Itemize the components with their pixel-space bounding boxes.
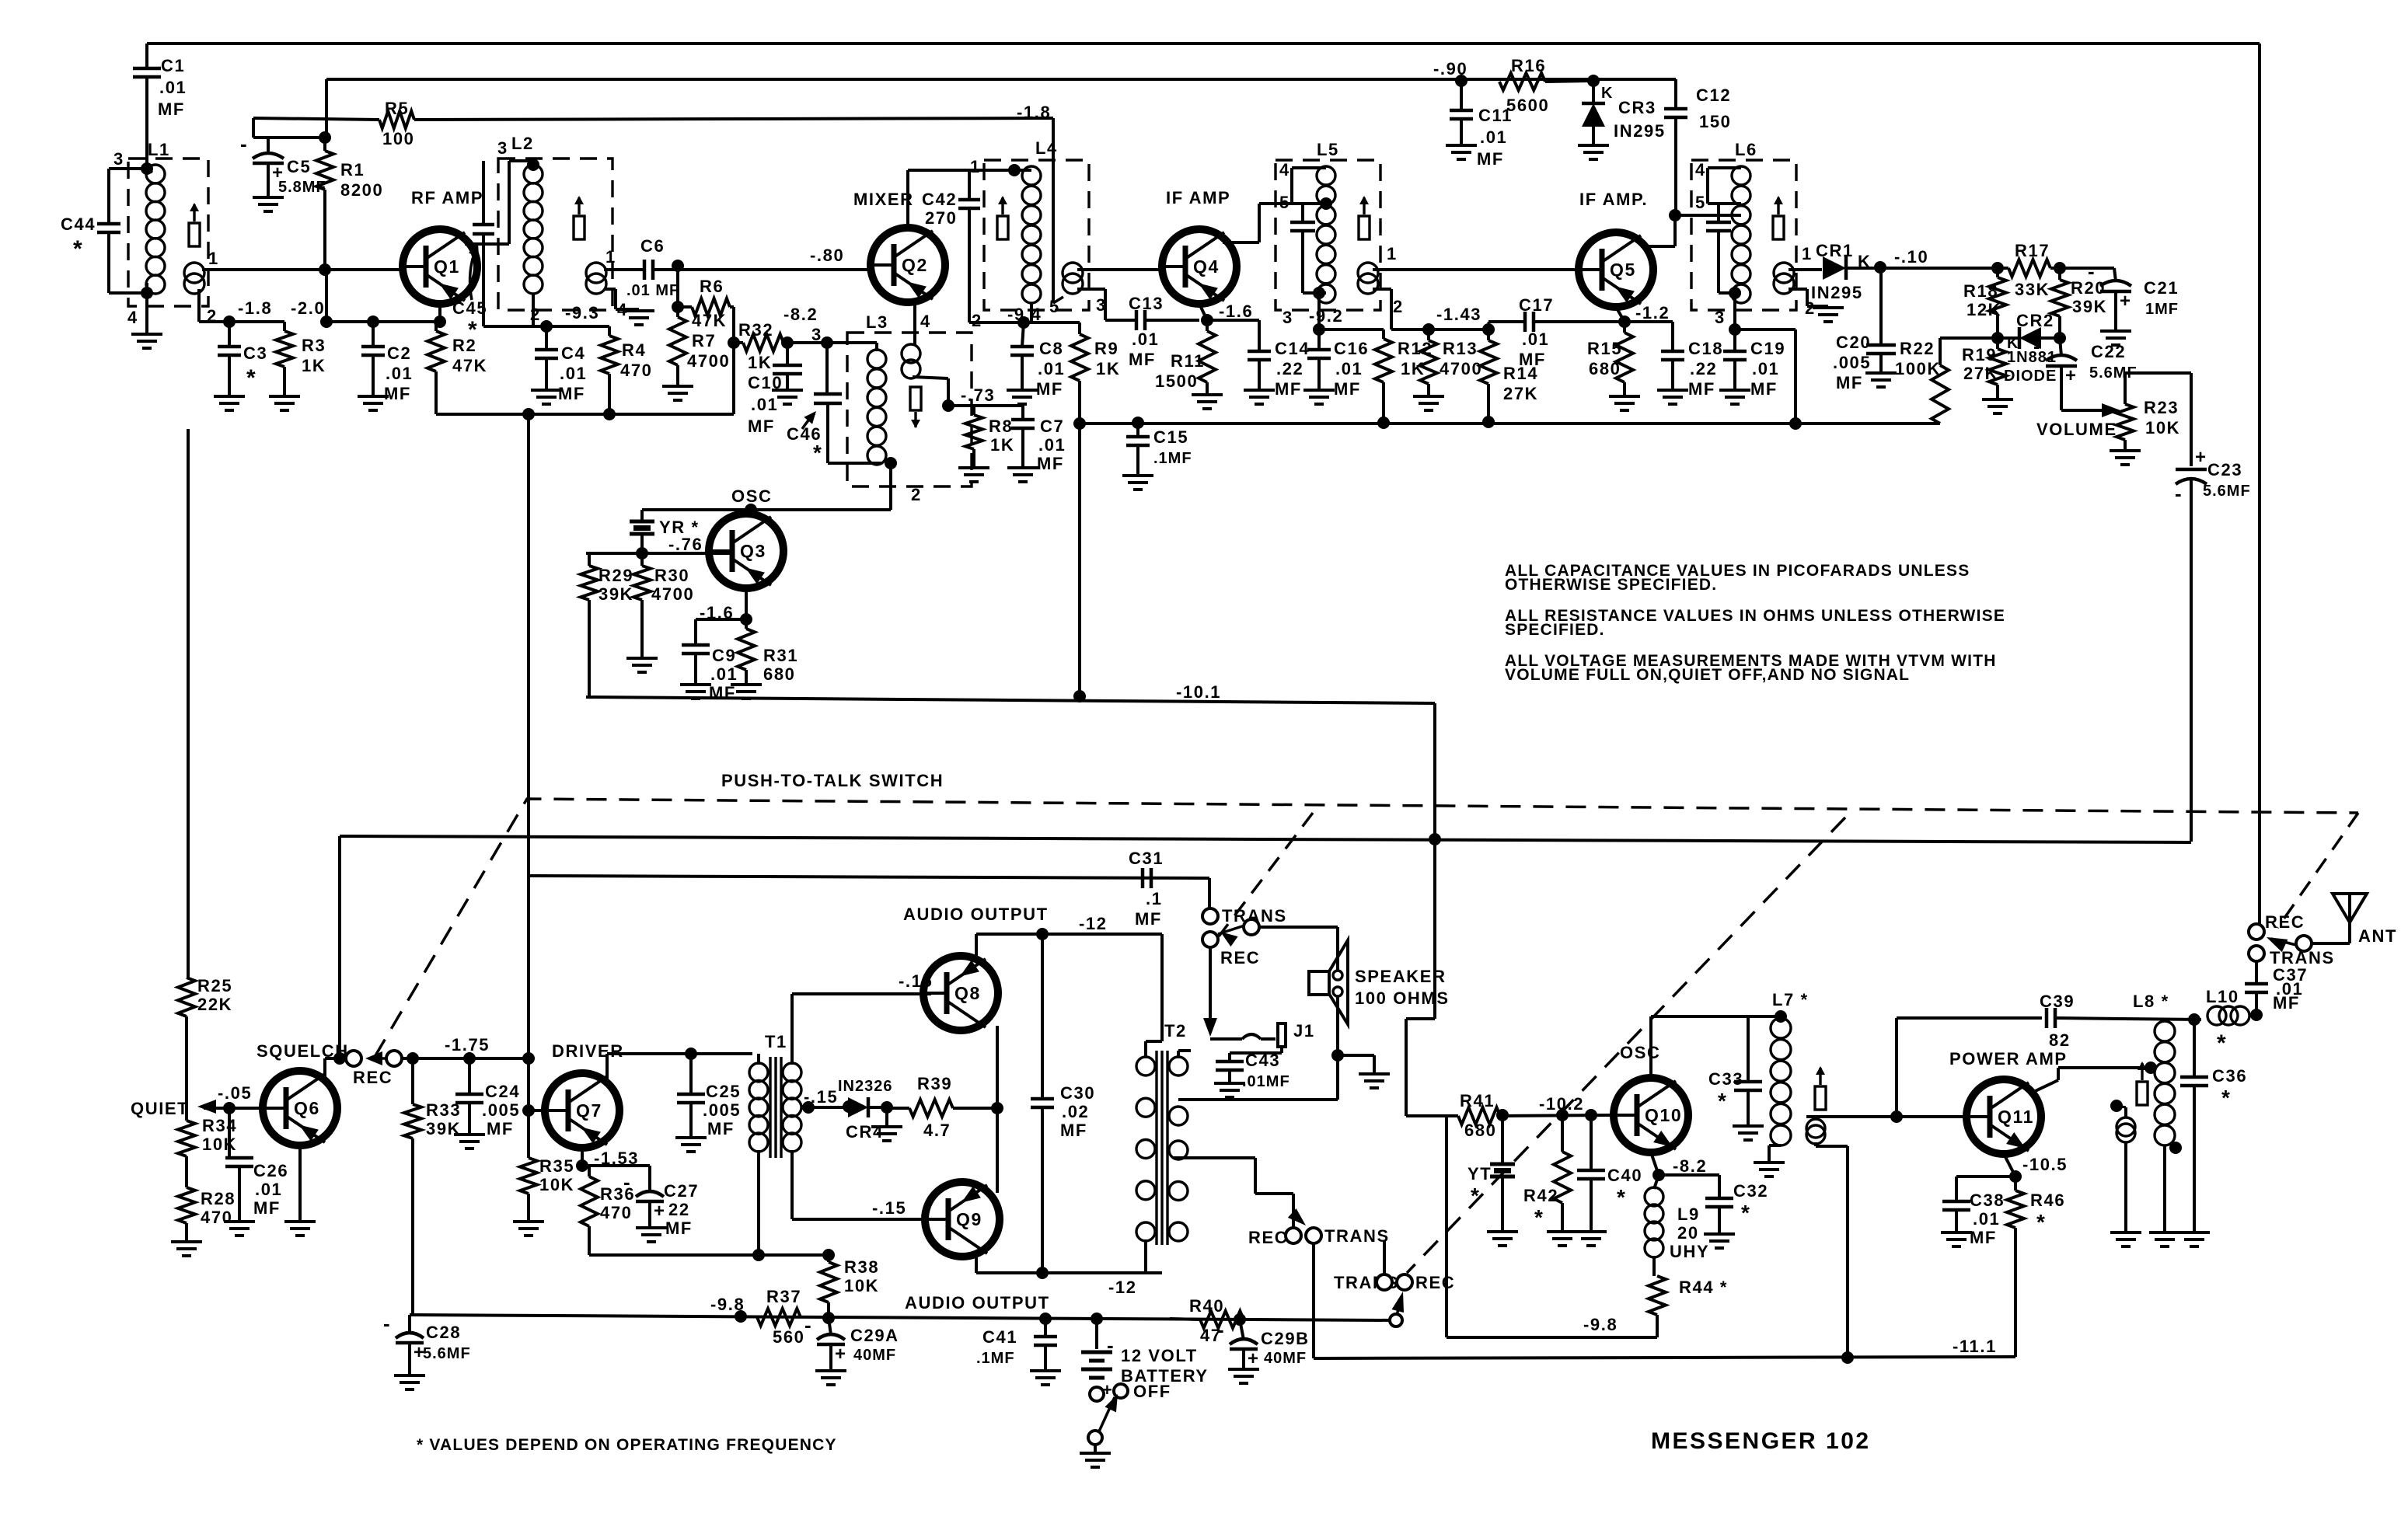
svg-text:-.10: -.10	[1894, 247, 1928, 267]
svg-text:MF: MF	[1129, 350, 1156, 369]
svg-text:Q4: Q4	[1193, 256, 1220, 277]
svg-text:C28: C28	[426, 1323, 461, 1342]
svg-text:-1.43: -1.43	[1436, 305, 1481, 324]
svg-text:YT: YT	[1467, 1164, 1492, 1184]
svg-text:4: 4	[920, 312, 931, 331]
svg-text:REC: REC	[353, 1068, 393, 1087]
svg-text:* VALUES DEPEND ON OPERATIN: * VALUES DEPEND ON OPERATING FREQUENCY	[417, 1436, 837, 1454]
svg-text:-9.2: -9.2	[1309, 306, 1343, 326]
svg-text:.01: .01	[1038, 435, 1066, 455]
svg-text:MF: MF	[158, 99, 185, 119]
svg-text:R6: R6	[700, 277, 724, 296]
svg-text:.22: .22	[1690, 359, 1717, 378]
svg-text:-: -	[804, 1313, 811, 1337]
svg-text:MF: MF	[253, 1198, 281, 1218]
svg-text:2: 2	[972, 311, 982, 330]
svg-text:.005: .005	[1833, 353, 1871, 372]
svg-text:-9.8: -9.8	[710, 1295, 745, 1314]
svg-text:R31: R31	[763, 646, 798, 665]
svg-text:C12: C12	[1696, 85, 1731, 105]
svg-text:REC: REC	[1415, 1273, 1455, 1292]
svg-text:DIODE: DIODE	[2004, 368, 2057, 385]
svg-text:150: 150	[1699, 112, 1732, 131]
svg-text:C38: C38	[1970, 1191, 2005, 1210]
svg-text:T1: T1	[765, 1032, 787, 1051]
svg-text:C11: C11	[1478, 106, 1513, 125]
svg-text:27K: 27K	[1963, 364, 1998, 383]
svg-text:R25: R25	[197, 976, 232, 995]
svg-text:C23: C23	[2207, 460, 2242, 479]
svg-text:1: 1	[1802, 244, 1813, 263]
svg-text:22K: 22K	[197, 995, 232, 1014]
svg-text:33K: 33K	[2015, 280, 2050, 299]
svg-text:*: *	[1617, 1185, 1627, 1209]
svg-text:C42: C42	[922, 190, 957, 209]
svg-text:-.05: -.05	[218, 1083, 252, 1103]
svg-text:.005: .005	[482, 1100, 520, 1120]
svg-text:MF: MF	[1037, 454, 1064, 473]
svg-text:VOLUME: VOLUME	[2036, 420, 2117, 439]
svg-text:-.80: -.80	[810, 246, 844, 265]
svg-text:-11.1: -11.1	[1953, 1337, 1997, 1356]
svg-text:MF: MF	[558, 384, 585, 403]
svg-text:QUIET: QUIET	[131, 1099, 189, 1118]
svg-text:.22: .22	[1276, 359, 1303, 378]
svg-text:22: 22	[668, 1200, 690, 1219]
svg-text:R1: R1	[340, 160, 365, 180]
svg-text:MF: MF	[2273, 993, 2300, 1013]
svg-text:L5: L5	[1317, 140, 1339, 159]
svg-text:OFF: OFF	[1133, 1382, 1171, 1401]
svg-text:-: -	[623, 1170, 630, 1194]
svg-text:.01: .01	[159, 78, 187, 97]
svg-text:PUSH-TO-TALK SWITCH: PUSH-TO-TALK SWITCH	[721, 771, 944, 790]
svg-text:J1: J1	[1293, 1021, 1315, 1041]
svg-text:C19: C19	[1750, 339, 1785, 358]
svg-text:-.76: -.76	[668, 535, 703, 554]
svg-text:L6: L6	[1735, 140, 1757, 159]
svg-text:-: -	[2088, 260, 2095, 283]
svg-text:C27: C27	[664, 1181, 699, 1201]
svg-text:C33: C33	[1708, 1069, 1743, 1089]
svg-text:R19: R19	[1962, 345, 1997, 364]
svg-text:C18: C18	[1688, 339, 1723, 358]
svg-text:-: -	[240, 132, 247, 155]
svg-text:-.73: -.73	[961, 385, 995, 405]
svg-text:+: +	[2065, 365, 2076, 386]
svg-text:Q10: Q10	[1645, 1105, 1682, 1125]
svg-text:-9.8: -9.8	[1583, 1315, 1618, 1334]
svg-text:L7 *: L7 *	[1772, 990, 1809, 1009]
svg-text:R41: R41	[1460, 1091, 1495, 1110]
svg-text:+: +	[2120, 291, 2131, 312]
svg-text:R37: R37	[766, 1287, 801, 1306]
svg-text:.01: .01	[1335, 359, 1363, 378]
svg-text:OSC: OSC	[731, 486, 772, 506]
svg-text:47K: 47K	[692, 311, 727, 330]
svg-text:IF AMP: IF AMP	[1166, 188, 1230, 207]
svg-text:R15: R15	[1587, 339, 1622, 358]
svg-text:DRIVER: DRIVER	[552, 1041, 624, 1061]
svg-text:-1.8: -1.8	[1017, 103, 1051, 122]
svg-text:MF: MF	[1275, 379, 1302, 399]
svg-text:1: 1	[1387, 244, 1398, 263]
svg-text:OSC: OSC	[1620, 1043, 1660, 1062]
svg-text:CR3: CR3	[1618, 98, 1656, 117]
svg-text:10K: 10K	[2145, 418, 2180, 438]
svg-text:C16: C16	[1334, 339, 1369, 358]
svg-text:-12: -12	[1079, 914, 1108, 933]
svg-text:1K: 1K	[1401, 359, 1425, 378]
svg-text:Q8: Q8	[954, 983, 981, 1003]
svg-text:MF: MF	[384, 384, 411, 403]
svg-text:100K: 100K	[1895, 359, 1941, 378]
svg-text:MF: MF	[1060, 1121, 1087, 1140]
svg-text:*: *	[1718, 1089, 1728, 1113]
svg-text:5600: 5600	[1506, 96, 1549, 115]
svg-text:L4: L4	[1035, 138, 1058, 158]
svg-text:*: *	[468, 317, 478, 343]
svg-text:C13: C13	[1129, 294, 1164, 313]
svg-text:680: 680	[1589, 359, 1621, 378]
svg-text:K: K	[1601, 85, 1614, 102]
svg-text:MF: MF	[1135, 909, 1162, 929]
svg-text:+: +	[835, 1344, 846, 1365]
svg-text:C41: C41	[982, 1327, 1017, 1347]
svg-text:MESSENGER 102: MESSENGER 102	[1651, 1428, 1871, 1454]
svg-text:.1MF: .1MF	[1153, 450, 1192, 467]
svg-text:Q5: Q5	[1610, 260, 1636, 280]
svg-text:470: 470	[600, 1203, 633, 1222]
svg-text:100 OHMS: 100 OHMS	[1355, 988, 1450, 1008]
svg-text:Q3: Q3	[740, 541, 766, 561]
svg-text:4700: 4700	[1440, 359, 1482, 378]
svg-text:R22: R22	[1900, 339, 1935, 358]
svg-text:1K: 1K	[1096, 359, 1120, 378]
svg-text:R39: R39	[917, 1074, 952, 1093]
svg-text:3: 3	[1283, 308, 1293, 327]
svg-text:R8: R8	[989, 417, 1013, 436]
svg-text:1: 1	[208, 249, 219, 268]
svg-text:C40: C40	[1607, 1166, 1642, 1185]
svg-text:.1MF: .1MF	[976, 1350, 1015, 1367]
svg-text:-12: -12	[1108, 1278, 1137, 1297]
svg-text:20: 20	[1677, 1223, 1699, 1243]
svg-text:-1.75: -1.75	[445, 1035, 490, 1055]
svg-text:L3: L3	[866, 312, 888, 332]
svg-text:C31: C31	[1129, 849, 1164, 868]
svg-text:REC: REC	[1220, 948, 1260, 967]
svg-text:Q6: Q6	[294, 1098, 320, 1118]
svg-text:-: -	[383, 1312, 390, 1335]
svg-text:VOLUME FULL ON,QUIET OFF,AN: VOLUME FULL ON,QUIET OFF,AND NO SIGNAL	[1505, 666, 1910, 684]
svg-text:MF: MF	[1970, 1228, 1997, 1247]
svg-text:AUDIO OUTPUT: AUDIO OUTPUT	[903, 905, 1049, 924]
svg-text:+: +	[1248, 1348, 1258, 1369]
svg-text:C2: C2	[387, 343, 411, 363]
svg-text:5.6MF: 5.6MF	[423, 1345, 471, 1362]
svg-text:MF: MF	[1334, 379, 1361, 399]
svg-text:CR4: CR4	[846, 1122, 884, 1142]
svg-text:MF: MF	[1519, 350, 1546, 369]
svg-text:R16: R16	[1511, 56, 1546, 75]
svg-text:C5: C5	[287, 157, 311, 176]
svg-text:SPEAKER: SPEAKER	[1355, 967, 1447, 986]
svg-text:8200: 8200	[340, 180, 383, 200]
svg-text:1K: 1K	[990, 435, 1014, 455]
svg-text:4: 4	[1279, 160, 1290, 180]
svg-text:L10: L10	[2206, 987, 2239, 1006]
svg-text:-: -	[2033, 334, 2040, 357]
svg-text:1K: 1K	[748, 353, 772, 372]
svg-text:R17: R17	[2015, 241, 2050, 260]
svg-text:40MF: 40MF	[853, 1347, 896, 1364]
svg-text:AUDIO OUTPUT: AUDIO OUTPUT	[905, 1293, 1050, 1313]
svg-text:MF: MF	[707, 1119, 735, 1138]
svg-text:2: 2	[1393, 297, 1404, 316]
svg-text:R38: R38	[844, 1257, 879, 1277]
svg-text:R5: R5	[385, 99, 409, 118]
svg-text:Q7: Q7	[576, 1100, 602, 1121]
svg-text:39K: 39K	[599, 584, 633, 604]
svg-text:MF: MF	[1036, 379, 1063, 399]
svg-text:-8.2: -8.2	[1673, 1156, 1707, 1176]
svg-text:L2: L2	[511, 134, 534, 153]
svg-text:5: 5	[1695, 193, 1706, 212]
svg-text:R23: R23	[2144, 398, 2179, 417]
svg-text:C21: C21	[2144, 278, 2179, 298]
svg-text:.01: .01	[1752, 359, 1779, 378]
svg-text:*: *	[2036, 1210, 2047, 1234]
svg-text:3: 3	[497, 138, 508, 158]
svg-text:-: -	[1217, 1318, 1224, 1341]
svg-text:IF AMP.: IF AMP.	[1579, 190, 1648, 209]
svg-text:L9: L9	[1677, 1204, 1700, 1224]
svg-text:10K: 10K	[202, 1135, 237, 1154]
svg-text:5: 5	[1049, 297, 1060, 316]
svg-text:*: *	[1741, 1201, 1751, 1225]
svg-text:R28: R28	[201, 1189, 236, 1208]
svg-text:-.90: -.90	[1433, 59, 1467, 78]
svg-text:REC: REC	[1248, 1228, 1288, 1247]
svg-text:.01: .01	[255, 1180, 282, 1199]
svg-text:C1: C1	[161, 56, 185, 75]
svg-text:+: +	[654, 1201, 665, 1222]
svg-text:.01MF: .01MF	[1242, 1073, 1290, 1090]
svg-text:R32: R32	[738, 320, 773, 340]
svg-text:.01: .01	[710, 664, 738, 684]
svg-text:5.6MF: 5.6MF	[2203, 483, 2251, 500]
svg-text:SPECIFIED.: SPECIFIED.	[1505, 621, 1605, 639]
svg-text:4: 4	[127, 308, 138, 327]
svg-text:C6: C6	[640, 236, 665, 256]
svg-text:.01: .01	[560, 364, 587, 383]
svg-text:1K: 1K	[302, 356, 326, 375]
svg-text:C15: C15	[1153, 427, 1188, 447]
svg-text:.01: .01	[751, 395, 778, 414]
svg-text:*: *	[2217, 1030, 2227, 1056]
svg-text:-.15: -.15	[899, 971, 933, 991]
svg-text:-.15: -.15	[872, 1198, 906, 1218]
svg-text:R3: R3	[302, 336, 326, 355]
svg-text:C8: C8	[1039, 339, 1063, 358]
svg-text:C10: C10	[748, 373, 783, 392]
svg-text:C4: C4	[561, 343, 585, 363]
svg-text:.01: .01	[1522, 329, 1549, 349]
svg-text:C39: C39	[2040, 992, 2075, 1011]
svg-text:*: *	[2221, 1086, 2232, 1110]
svg-text:ANT: ANT	[2358, 926, 2397, 946]
svg-text:-10.2: -10.2	[1539, 1094, 1584, 1114]
svg-text:4700: 4700	[687, 351, 730, 371]
svg-text:R44 *: R44 *	[1679, 1278, 1728, 1297]
svg-text:C32: C32	[1733, 1181, 1768, 1201]
svg-text:.01: .01	[386, 364, 413, 383]
svg-text:C17: C17	[1519, 295, 1554, 315]
svg-text:CR1: CR1	[1816, 241, 1854, 260]
svg-text:3: 3	[811, 325, 822, 344]
svg-text:MF: MF	[748, 417, 775, 436]
svg-text:L1: L1	[148, 140, 170, 159]
svg-text:Q2: Q2	[902, 255, 928, 275]
svg-text:+: +	[2195, 447, 2206, 468]
svg-text:39K: 39K	[2072, 297, 2107, 316]
svg-text:C20: C20	[1836, 333, 1871, 352]
svg-text:MF: MF	[665, 1218, 693, 1238]
svg-text:Q9: Q9	[956, 1209, 982, 1229]
svg-text:IN2326: IN2326	[838, 1078, 893, 1095]
svg-text:TRANS: TRANS	[1324, 1226, 1390, 1246]
svg-text:-10.1: -10.1	[1176, 682, 1221, 702]
svg-text:OTHERWISE SPECIFIED.: OTHERWISE SPECIFIED.	[1505, 576, 1717, 594]
svg-text:R42: R42	[1523, 1186, 1558, 1205]
svg-text:47K: 47K	[452, 356, 487, 375]
svg-text:40MF: 40MF	[1264, 1350, 1307, 1367]
svg-text:Q11: Q11	[1998, 1107, 2034, 1127]
svg-text:.01 MF: .01 MF	[626, 282, 679, 299]
svg-text:POWER AMP: POWER AMP	[1949, 1049, 2068, 1069]
svg-text:4700: 4700	[651, 584, 694, 604]
svg-text:-1.8: -1.8	[238, 298, 272, 318]
svg-text:R35: R35	[539, 1156, 574, 1176]
svg-text:L8 *: L8 *	[2133, 992, 2169, 1011]
svg-text:.02: .02	[1062, 1102, 1089, 1121]
svg-text:-8.2: -8.2	[783, 305, 818, 324]
svg-text:MF: MF	[1836, 373, 1863, 392]
svg-text:2: 2	[911, 485, 922, 504]
svg-text:MF: MF	[487, 1119, 514, 1138]
svg-text:C9: C9	[712, 646, 736, 665]
svg-text:C26: C26	[253, 1161, 288, 1180]
svg-text:*: *	[73, 236, 83, 262]
svg-text:4.7: 4.7	[923, 1121, 951, 1140]
svg-text:.01: .01	[1132, 329, 1159, 349]
svg-text:IN295: IN295	[1811, 283, 1863, 302]
svg-text:1: 1	[605, 247, 616, 267]
svg-text:-: -	[2175, 482, 2182, 505]
svg-text:12 VOLT: 12 VOLT	[1121, 1346, 1198, 1365]
svg-text:R7: R7	[692, 331, 716, 350]
svg-text:R29: R29	[599, 566, 633, 585]
svg-text:10K: 10K	[539, 1175, 574, 1194]
svg-text:-.15: -.15	[804, 1087, 838, 1107]
svg-text:5: 5	[1279, 193, 1290, 212]
svg-text:560: 560	[773, 1327, 805, 1347]
svg-text:82: 82	[2049, 1030, 2071, 1050]
svg-text:MF: MF	[1750, 379, 1778, 399]
svg-text:12K: 12K	[1967, 300, 2001, 319]
svg-text:IN295: IN295	[1614, 121, 1666, 141]
svg-text:MIXER: MIXER	[853, 190, 914, 209]
svg-text:4: 4	[1695, 160, 1706, 180]
svg-text:C14: C14	[1275, 339, 1310, 358]
svg-text:-10.5: -10.5	[2022, 1155, 2068, 1174]
svg-text:-2.0: -2.0	[291, 298, 325, 318]
svg-text:C29A: C29A	[850, 1326, 899, 1345]
svg-text:270: 270	[925, 208, 958, 228]
svg-text:T2: T2	[1164, 1021, 1187, 1041]
svg-text:1: 1	[970, 157, 981, 176]
svg-text:-9.3: -9.3	[565, 303, 599, 322]
svg-text:R9: R9	[1094, 339, 1118, 358]
svg-text:R18: R18	[1963, 281, 1998, 301]
svg-text:470: 470	[620, 361, 653, 380]
svg-text:R46: R46	[2030, 1191, 2065, 1210]
svg-text:.01: .01	[1480, 127, 1507, 147]
svg-text:UHY: UHY	[1670, 1242, 1709, 1261]
svg-text:C45: C45	[452, 298, 487, 318]
svg-text:R4: R4	[622, 340, 646, 360]
svg-text:.01: .01	[1038, 359, 1065, 378]
svg-text:-1.6: -1.6	[1219, 302, 1253, 321]
svg-text:680: 680	[1464, 1121, 1497, 1140]
svg-text:R13: R13	[1443, 339, 1478, 358]
svg-text:C36: C36	[2212, 1066, 2247, 1086]
svg-text:100: 100	[382, 129, 415, 148]
svg-text:680: 680	[763, 664, 796, 684]
svg-text:1500: 1500	[1155, 371, 1198, 391]
svg-text:MF: MF	[1688, 379, 1715, 399]
svg-text:C3: C3	[243, 343, 267, 363]
svg-text:C24: C24	[485, 1082, 520, 1101]
svg-text:.1: .1	[1146, 889, 1163, 908]
svg-text:C22: C22	[2091, 342, 2126, 361]
svg-text:CR2: CR2	[2016, 311, 2054, 330]
svg-text:3: 3	[113, 149, 124, 169]
svg-text:470: 470	[201, 1208, 233, 1227]
svg-text:MF: MF	[1477, 149, 1504, 169]
svg-text:1MF: 1MF	[2145, 301, 2179, 318]
svg-text:*: *	[246, 365, 257, 391]
svg-text:C29B: C29B	[1261, 1329, 1310, 1348]
svg-text:.005: .005	[703, 1100, 741, 1120]
svg-text:R11: R11	[1171, 351, 1205, 371]
svg-text:3: 3	[1715, 308, 1726, 327]
svg-text:10K: 10K	[844, 1276, 879, 1295]
svg-text:*: *	[1534, 1205, 1544, 1229]
svg-text:C44: C44	[61, 214, 96, 234]
svg-text:R40: R40	[1189, 1296, 1224, 1316]
svg-text:C25: C25	[706, 1082, 741, 1101]
svg-text:R30: R30	[654, 566, 689, 585]
svg-text:Q1: Q1	[434, 256, 460, 277]
svg-text:*: *	[1471, 1184, 1481, 1208]
svg-text:*: *	[813, 441, 823, 465]
svg-text:27K: 27K	[1503, 384, 1538, 403]
svg-text:C30: C30	[1060, 1083, 1095, 1103]
svg-text:.01: .01	[1973, 1209, 2000, 1229]
svg-text:RF AMP: RF AMP	[411, 188, 483, 207]
